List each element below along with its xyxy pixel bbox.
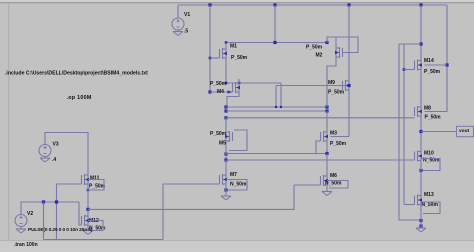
- wire M11 drain down: [87, 188, 89, 209]
- wire M1 gate stub: [210, 57, 220, 59]
- wire rail end corner to M8 bulk: [425, 5, 448, 112]
- svg-text:P_50m: P_50m: [306, 44, 323, 50]
- wire M13 bulk loop: [421, 202, 440, 214]
- svg-text:N_50m: N_50m: [422, 202, 439, 208]
- svg-text:vout: vout: [459, 128, 470, 134]
- wire H2 drop: [275, 86, 277, 108]
- transistor M6 (NMOS): [321, 172, 329, 189]
- label M1 value P_50m: [231, 55, 248, 61]
- node dot xR M14 gate tap: [403, 68, 406, 71]
- wire vertical x210: [209, 5, 211, 92]
- node dot M11-M12 node: [86, 208, 89, 211]
- wire vout stub: [421, 131, 457, 133]
- wire V3 to M11 source: [45, 133, 88, 172]
- wire M10-M13: [420, 165, 422, 192]
- ground below M13: [416, 228, 426, 232]
- label M14 value P_50m: [424, 69, 441, 75]
- value V1 .5: [184, 28, 188, 34]
- node dot M1 gate tap: [209, 57, 212, 60]
- svg-text:M2: M2: [316, 52, 323, 58]
- label V1: [184, 12, 190, 18]
- wire bus M12 node to M6 gate: [88, 185, 294, 209]
- node dot W2 x226: [225, 41, 228, 44]
- label M11 value P_50m: [89, 183, 106, 189]
- wire M14-M8: [420, 74, 422, 104]
- svg-text:V3: V3: [53, 141, 59, 147]
- node dot H2 drop: [275, 106, 277, 108]
- node dot x447 bulk tap: [445, 63, 448, 66]
- node dot H1 drop: [280, 106, 282, 108]
- voltage source V1: [172, 18, 184, 30]
- wire M14 source from rail: [420, 5, 422, 57]
- node dot M4 source: [238, 82, 241, 85]
- svg-text:.5: .5: [184, 28, 188, 34]
- wire M1-M2 source bus: [226, 42, 327, 44]
- value V2 PULSE: [28, 227, 93, 233]
- net label vout: [459, 128, 470, 134]
- wire M12 drain stub: [87, 209, 89, 212]
- svg-text:M5: M5: [219, 140, 226, 146]
- svg-text:P_50m: P_50m: [89, 183, 106, 189]
- svg-text:M13: M13: [424, 192, 434, 198]
- ground below M6: [322, 192, 332, 196]
- wire bus to M10 gate: [226, 159, 415, 161]
- node dot V2 bus x56.5: [55, 200, 58, 203]
- node dot bias2: [224, 109, 227, 112]
- wire M9 drain down: [348, 94, 350, 137]
- svg-text:.op 100M: .op 100M: [67, 95, 92, 101]
- wire M1 source stub: [225, 43, 227, 46]
- spice directive .op: [67, 95, 92, 101]
- label M13 value N_50m: [422, 202, 439, 208]
- wire bias bus to M8 gate: [226, 117, 415, 119]
- node dot M13 source a: [419, 219, 422, 222]
- wire M8 drain to vout: [420, 120, 422, 148]
- wire bias bus y107: [226, 106, 327, 108]
- label M9 value P_50m: [328, 89, 345, 95]
- wire M7 gate wire: [163, 183, 220, 185]
- label M6: [330, 173, 337, 179]
- wire V2 tap down: [43, 202, 45, 240]
- svg-text:P_50m: P_50m: [328, 89, 345, 95]
- net label vout box: [457, 126, 474, 136]
- wire up to M7 gate: [162, 184, 164, 240]
- svg-text:M4: M4: [217, 89, 224, 95]
- node dot rail x421: [419, 3, 422, 6]
- transistor M14 (PMOS): [415, 57, 423, 74]
- wire M7 source stub: [225, 188, 227, 196]
- wire vertical xL: [399, 44, 421, 220]
- value V3 .4: [52, 157, 56, 163]
- voltage source V3: [39, 145, 51, 157]
- node dot M11 source: [87, 189, 90, 192]
- wire M12 source stub: [87, 229, 89, 231]
- wire M6 gate wire: [294, 184, 321, 186]
- svg-text:M7: M7: [230, 172, 237, 178]
- wire M13 source down: [420, 209, 422, 229]
- svg-text:N_50m: N_50m: [325, 180, 342, 186]
- svg-text:N_50m: N_50m: [230, 181, 247, 187]
- wire bottom bus: [44, 239, 164, 241]
- node dot M10 source: [419, 169, 422, 172]
- wire M2 source stub: [335, 37, 337, 44]
- label M13: [424, 192, 434, 198]
- svg-text:M1: M1: [230, 43, 237, 49]
- wire vertical xR: [403, 44, 405, 205]
- wire M7 drain stub: [225, 160, 227, 171]
- label M10: [424, 150, 434, 156]
- ground below M7: [221, 196, 231, 200]
- wire M11 gate wire: [57, 184, 82, 202]
- transistor M5 (PMOS mirrored): [225, 128, 233, 145]
- transistor M7 (NMOS): [220, 171, 228, 188]
- transistor M10 (NMOS): [415, 148, 423, 165]
- label M9: [328, 80, 335, 86]
- wire M14 bulk wire: [425, 64, 448, 66]
- node dot bias1 right: [325, 105, 328, 108]
- transistor M12 (NMOS): [82, 212, 90, 229]
- node dot rail x275: [273, 3, 276, 6]
- wire H1: [226, 82, 281, 84]
- wire V2 bus: [21, 202, 79, 215]
- label M7: [230, 172, 237, 178]
- svg-text:V1: V1: [184, 12, 190, 18]
- transistor M13 (NMOS): [415, 192, 423, 209]
- node dot M14 top: [419, 42, 422, 45]
- label M11: [90, 175, 100, 181]
- node dot bias1: [224, 105, 227, 108]
- wire M3 gate diode tie: [316, 141, 321, 154]
- label M12 value N_50m: [89, 225, 106, 231]
- svg-text:M6: M6: [330, 173, 337, 179]
- wire gate-bias jog: [399, 43, 421, 45]
- wire M7 bulk loop: [226, 180, 247, 191]
- svg-text:P_50m: P_50m: [424, 69, 441, 75]
- wire M14 gate stub: [404, 69, 415, 71]
- wire M9 drain jog to M3: [331, 136, 350, 138]
- wire vertical x275: [274, 5, 276, 43]
- label M5 value P_50m: [210, 131, 227, 137]
- transistor M9 (PMOS): [343, 77, 351, 94]
- svg-text:P_50m: P_50m: [210, 81, 227, 87]
- node dot W2 x275: [273, 41, 276, 44]
- wire M3 source stub: [326, 111, 328, 128]
- svg-text:PULSE(0 0.25 0 0 0 10n 20n 5): PULSE(0 0.25 0 0 0 10n 20n 5): [28, 227, 93, 233]
- label M12: [89, 218, 99, 224]
- transistor M2 (PMOS mirrored): [335, 44, 343, 61]
- label M4 value P_50m: [210, 81, 227, 87]
- wire M2 source jog: [327, 37, 358, 53]
- wire M11 bulk loop: [88, 180, 104, 191]
- svg-text:M9: M9: [328, 80, 335, 86]
- transistor M4 (PMOS): [228, 79, 241, 96]
- svg-text:.tran 100n: .tran 100n: [14, 242, 38, 248]
- wire M12 gate wire: [79, 202, 82, 225]
- label V2: [27, 211, 33, 217]
- label M14: [424, 58, 434, 64]
- wire H2 to M9: [276, 85, 349, 87]
- label M4: [217, 89, 224, 95]
- wire M12 bulk loop: [88, 221, 103, 231]
- ground below M12: [83, 231, 93, 235]
- svg-text:M8: M8: [424, 105, 431, 111]
- label M6 value N_50m: [325, 180, 342, 186]
- svg-text:M11: M11: [90, 175, 100, 181]
- svg-text:P_50m: P_50m: [425, 114, 442, 120]
- spice directive .include: [5, 71, 148, 77]
- wire M13 gate stub: [404, 204, 415, 206]
- wire M5 drain stub: [225, 145, 227, 160]
- svg-text:M10: M10: [424, 150, 434, 156]
- wire M6 bulk loop: [327, 181, 348, 189]
- transistor M8 (PMOS): [415, 103, 423, 120]
- svg-text:M14: M14: [424, 58, 434, 64]
- wire bias bus y111: [226, 110, 327, 112]
- node dot W2 x327: [325, 41, 328, 44]
- ground below V3: [40, 157, 50, 163]
- transistor M3 (PMOS): [321, 128, 329, 145]
- wire M5 gate diode loop: [229, 130, 247, 151]
- label M2 value P_50m: [306, 44, 323, 50]
- wire VDD rail: [178, 4, 447, 6]
- svg-text:.include C:\Users\DELL\Desktop: .include C:\Users\DELL\Desktop\project\B…: [5, 71, 148, 77]
- svg-text:.4: .4: [52, 157, 56, 163]
- node dot V2 bus x43.5: [42, 200, 45, 203]
- node dot rail x349: [347, 3, 350, 6]
- wire bus M5-M3 drains: [226, 153, 327, 155]
- wire M6 drain from B1: [326, 154, 328, 173]
- ground below V2: [16, 227, 26, 234]
- label M3 value P_50m: [330, 141, 347, 147]
- label M7 value N_50m: [230, 181, 247, 187]
- node dot M5 drain: [224, 152, 227, 155]
- svg-text:M3: M3: [330, 130, 337, 136]
- spice directive .tran: [14, 242, 38, 248]
- ground below V1: [173, 30, 183, 36]
- transistor M1 (PMOS): [220, 45, 228, 62]
- node dot B1 right: [325, 152, 328, 155]
- node dot rail x210: [208, 3, 211, 6]
- node dot bias2 right: [325, 109, 328, 112]
- svg-text:P_50m: P_50m: [330, 141, 347, 147]
- label M2: [316, 52, 323, 58]
- node dot H1 x226: [225, 82, 228, 85]
- label M8 value P_50m: [425, 114, 442, 120]
- node dot M13 source b: [419, 224, 422, 227]
- node dot M7 source: [224, 188, 227, 191]
- wire M4 drain jog: [227, 96, 239, 107]
- label M10 value N_50m: [423, 157, 440, 163]
- svg-text:P_50m: P_50m: [231, 55, 248, 61]
- wire M3 drain stub: [326, 145, 328, 154]
- wire M5 source stub: [225, 118, 227, 128]
- label M1: [230, 43, 237, 49]
- label M5: [219, 140, 226, 146]
- wire M10 bulk loop: [421, 159, 440, 171]
- svg-text:V2: V2: [27, 211, 33, 217]
- voltage source V2: [15, 215, 27, 227]
- wire M2 drain path: [327, 61, 336, 107]
- label M8: [424, 105, 431, 111]
- wire V1 to rail: [177, 5, 179, 18]
- node dot vout: [419, 130, 422, 133]
- wire H1 right drop: [280, 83, 282, 107]
- wire V2 tap2 down: [56, 202, 58, 240]
- wire M1 drain down: [225, 62, 227, 83]
- node dot bias3: [224, 116, 227, 119]
- label V3: [53, 141, 59, 147]
- node dot B2 left: [224, 158, 227, 161]
- wire M9 source from rail: [348, 5, 350, 77]
- wire M6 source stub: [326, 189, 328, 192]
- wire M4 gate wire: [210, 91, 233, 93]
- label M3: [330, 130, 337, 136]
- svg-text:P_50m: P_50m: [210, 131, 227, 137]
- node dot M4 gate tap: [208, 90, 211, 93]
- node dot M9 bulk: [347, 84, 350, 87]
- transistor M11 (PMOS): [82, 171, 90, 188]
